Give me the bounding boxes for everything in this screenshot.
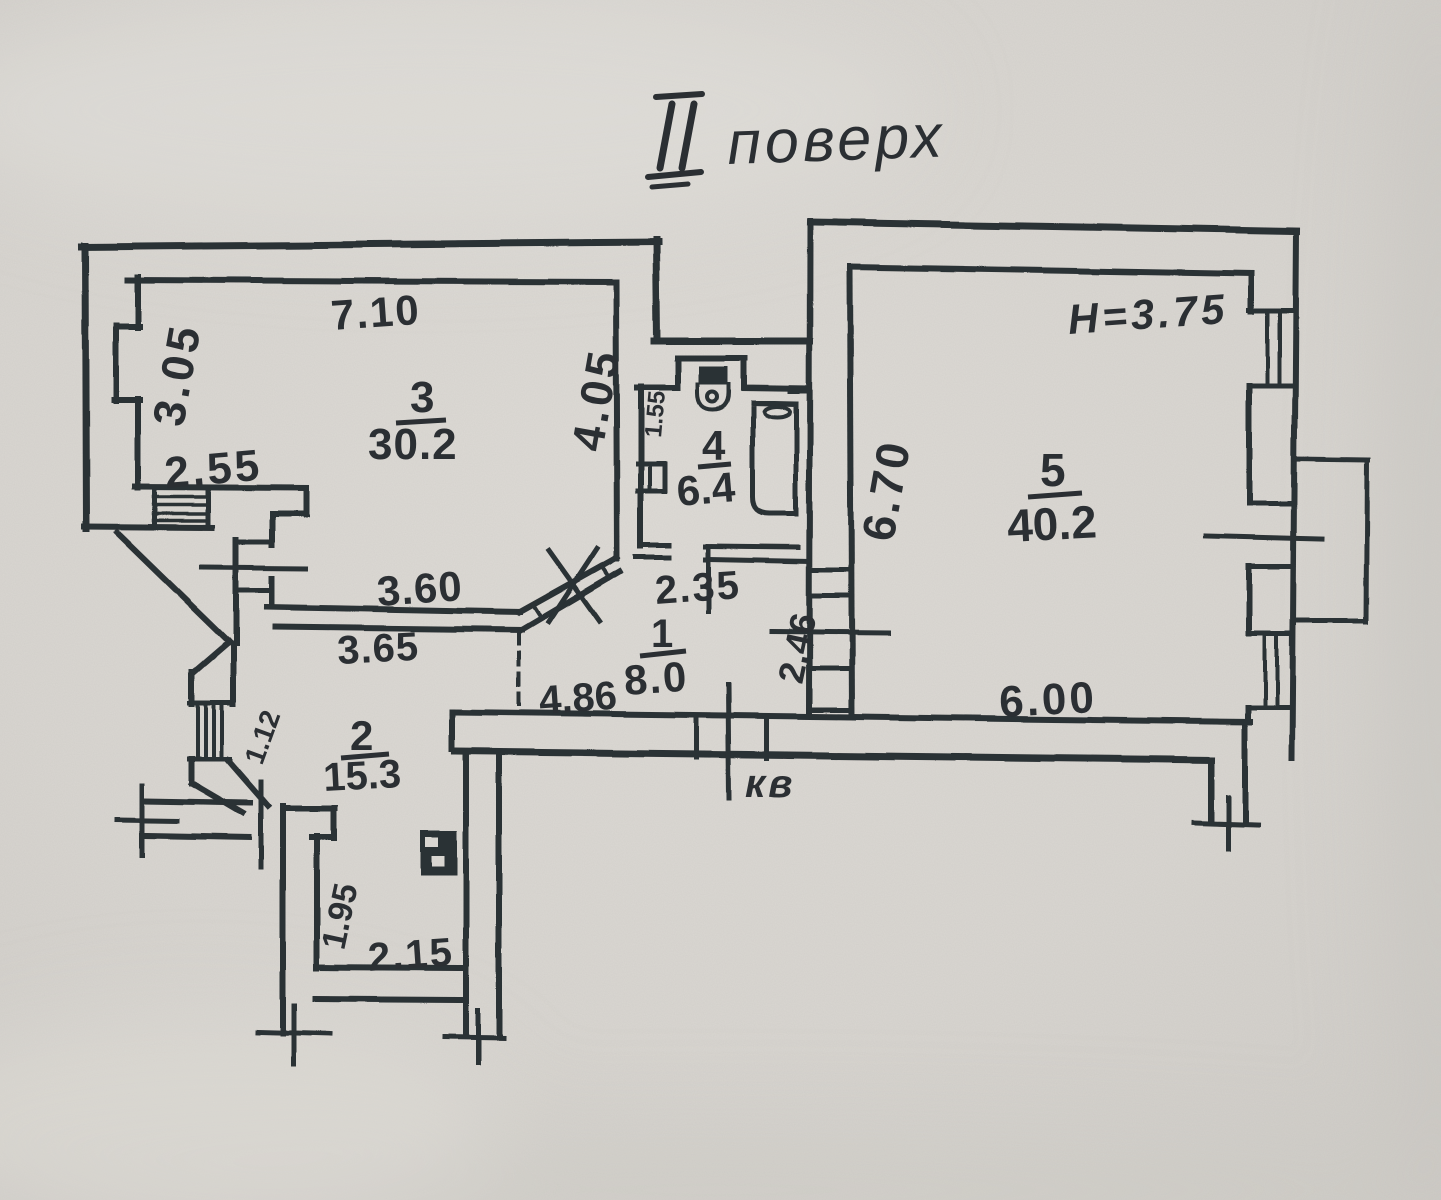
- kitchen inner left wall: [314, 836, 320, 968]
- kitchen left wall end tick: [258, 1032, 330, 1034]
- svg-text:15.3: 15.3: [322, 752, 402, 800]
- bathroom bottom wall with door gap: [641, 545, 798, 547]
- svg-text:3: 3: [410, 373, 434, 422]
- landing steps walls: [272, 488, 306, 545]
- outer wall bottom: [455, 751, 1211, 760]
- svg-text:30.2: 30.2: [368, 420, 458, 469]
- bathroom inner left wall: [638, 386, 644, 546]
- lower-left wall: [145, 801, 250, 838]
- svg-text:кв: кв: [745, 762, 795, 806]
- toilet bowl: [698, 384, 729, 409]
- kitchen outer bottom wall: [315, 999, 463, 1000]
- outer wall left (room 3): [85, 246, 86, 529]
- svg-text:2: 2: [350, 712, 373, 759]
- window B: [1248, 634, 1291, 708]
- svg-text:2.15: 2.15: [367, 930, 456, 980]
- svg-text:6.00: 6.00: [998, 673, 1098, 727]
- svg-text:1.55: 1.55: [640, 390, 671, 439]
- kitchen top corner: [283, 808, 335, 838]
- room 5 inner left wall (6.70): [850, 267, 852, 716]
- tub niche cap: [790, 390, 808, 394]
- bathroom door leaf: [706, 551, 711, 612]
- wall room2/room3 top line (3.60): [267, 607, 520, 612]
- svg-text:поверх: поверх: [726, 101, 947, 177]
- balcony door caps: [1249, 504, 1292, 566]
- lower-left wall end ticks: [117, 820, 176, 821]
- balcony: [1294, 459, 1368, 622]
- stove: [420, 831, 457, 876]
- svg-text:1: 1: [651, 612, 673, 656]
- kitchen inner bottom wall: [317, 967, 463, 968]
- svg-text:3.65: 3.65: [336, 625, 420, 673]
- outer wall top (room 3): [82, 242, 658, 247]
- svg-text:5: 5: [1040, 444, 1066, 496]
- svg-text:2.35: 2.35: [654, 563, 743, 613]
- toilet tank: [699, 366, 728, 384]
- outer wall right (room 5): [1292, 231, 1296, 758]
- diagonal jog to lower flight: [193, 642, 229, 673]
- svg-text:4.86: 4.86: [538, 674, 619, 723]
- svg-text:8.0: 8.0: [622, 653, 690, 704]
- below flight B: [189, 759, 195, 783]
- svg-text:3.60: 3.60: [375, 562, 464, 615]
- diagonal outer wall: [117, 533, 229, 642]
- stairs flight B: [190, 703, 230, 759]
- kitchen right wall: [466, 751, 499, 1035]
- dashed zone boundary room2/hall: [517, 633, 521, 712]
- wall room2/room3 bottom line (3.65): [275, 627, 522, 630]
- room 3 inner left wall lower: [135, 399, 141, 488]
- entrance door tick: [728, 684, 729, 798]
- svg-text:7.10: 7.10: [329, 286, 422, 339]
- svg-text:6.4: 6.4: [675, 463, 738, 515]
- stairs flight A: [155, 490, 208, 527]
- outer wall right of room 3 block: [656, 240, 657, 341]
- title II: [648, 94, 702, 187]
- corridor bottom inner wall: [452, 712, 1250, 722]
- courtyard notch bottom wall: [654, 338, 810, 345]
- wall stub bottom right: [1208, 760, 1214, 822]
- room 3 inner left wall upper: [135, 277, 141, 328]
- hall/room5 wall door caps: [809, 570, 849, 710]
- svg-text:2.55: 2.55: [163, 441, 265, 498]
- bathtub: [753, 403, 796, 514]
- door swing X mark: [549, 549, 599, 622]
- diagonal wall with door: [520, 558, 617, 612]
- outer wall top (room 5): [810, 222, 1296, 231]
- svg-text:40.2: 40.2: [1006, 495, 1098, 552]
- room 5 inner right wall segments: [1248, 274, 1251, 722]
- diagonal door jamb ticks: [533, 566, 610, 619]
- shared wall bathroom/room5 outer: [809, 221, 810, 714]
- sink niche: [638, 464, 665, 491]
- bay notch left: [114, 326, 140, 401]
- room 5 inner top wall: [850, 267, 1251, 274]
- room 3 inner top wall: [128, 280, 614, 282]
- window A: [1249, 311, 1294, 386]
- door jamb at landing exit: [259, 781, 264, 867]
- kitchen right wall end tick: [445, 1036, 503, 1037]
- landing door tick: [202, 567, 305, 568]
- room 3 bottom-left wall (2.55): [135, 487, 306, 488]
- entrance door jambs: [696, 716, 767, 758]
- balcony door tick: [1206, 536, 1322, 539]
- bathroom top wall and toilet nook: [637, 358, 808, 389]
- outer bottom-left wall above stairs: [84, 527, 212, 528]
- kitchen outer left wall: [280, 806, 286, 1033]
- svg-text:4: 4: [702, 422, 726, 469]
- wall room3/bathroom (4.05 line): [616, 282, 617, 559]
- room5 door tick: [772, 632, 888, 633]
